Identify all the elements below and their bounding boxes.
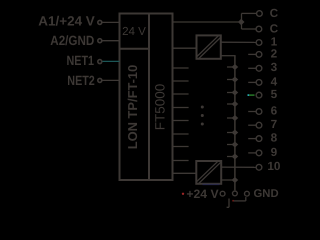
svg-text:A2/GND: A2/GND	[50, 33, 94, 48]
svg-text:FT5000: FT5000	[153, 84, 168, 131]
svg-text:9: 9	[271, 145, 278, 159]
svg-text:24 V: 24 V	[122, 25, 146, 38]
svg-text:NET1: NET1	[67, 53, 95, 68]
svg-text:LON TP/FT-10: LON TP/FT-10	[125, 65, 140, 150]
svg-text:A1/+24 V: A1/+24 V	[38, 14, 95, 29]
svg-text:5: 5	[271, 87, 278, 101]
svg-text:8: 8	[271, 131, 278, 145]
svg-text:2: 2	[271, 46, 278, 60]
svg-text:GND: GND	[254, 188, 279, 200]
svg-text:C: C	[270, 6, 279, 20]
svg-text:7: 7	[271, 117, 278, 131]
svg-text:10: 10	[267, 159, 281, 173]
svg-text:+24 V: +24 V	[186, 187, 219, 201]
svg-text:3: 3	[271, 60, 278, 74]
svg-text:NET2: NET2	[67, 73, 95, 88]
svg-text:6: 6	[271, 103, 278, 117]
